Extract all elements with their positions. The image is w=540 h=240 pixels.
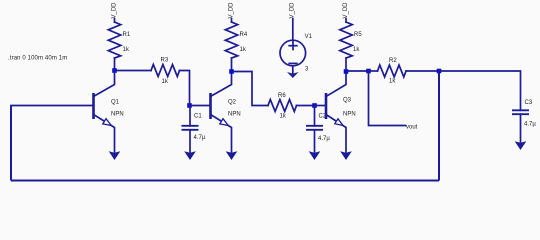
svg-text:C1: C1 [194, 114, 202, 120]
svg-text:4.7µ: 4.7µ [318, 136, 330, 142]
svg-text:1k: 1k [162, 79, 169, 85]
ground under C1 [184, 151, 196, 160]
wire R6 right lead [297, 105, 315, 107]
ground under V1 [287, 72, 299, 78]
wire R2 right lead [406, 70, 439, 72]
svg-text:Q1: Q1 [111, 100, 120, 106]
svg-text:V_DD: V_DD [290, 2, 296, 19]
wire vout tap [369, 71, 406, 126]
ground under Q3 [340, 151, 352, 160]
node R6/C2/Q3-base junction [312, 103, 317, 108]
node R1/Q1/R3 junction [112, 68, 117, 73]
resistor R4 [225, 22, 237, 58]
svg-text:NPN: NPN [228, 112, 241, 118]
node R3/C1/Q2-base junction [187, 103, 192, 108]
svg-text:1k: 1k [123, 47, 130, 53]
wire left rail [10, 106, 12, 181]
svg-text:4.7µ: 4.7µ [194, 135, 206, 141]
voltage source V1 [280, 19, 313, 73]
capacitor C1 [189, 106, 191, 126]
transistor Q1 [94, 71, 124, 153]
wire R1 bottom lead [114, 58, 116, 71]
svg-text:V_DD: V_DD [343, 2, 349, 19]
wire R4 bottom lead [231, 58, 233, 72]
node R4/Q2-collector junction [229, 69, 234, 74]
wire R3 right lead + down jog to Q2 base node [180, 71, 190, 106]
wire staircase from Q2 collector node to R6 [234, 72, 268, 106]
wire R5 node to vout node [348, 70, 369, 72]
resistor R2 [371, 70, 378, 72]
capacitor C2 [314, 106, 316, 126]
svg-text:V_DD: V_DD [229, 2, 235, 19]
svg-text:4.7µ: 4.7µ [524, 122, 536, 128]
transistor Q2 [211, 72, 241, 153]
svg-text:NPN: NPN [343, 112, 356, 118]
svg-text:R3: R3 [161, 58, 169, 64]
svg-text:1k: 1k [389, 79, 396, 85]
ground under C2 [309, 151, 321, 160]
svg-text:R4: R4 [240, 32, 248, 38]
wire R5 top lead [345, 19, 347, 23]
svg-text:Q2: Q2 [228, 100, 237, 106]
node vout junction [366, 69, 371, 74]
svg-text:R6: R6 [278, 93, 286, 99]
ground under Q1 [109, 151, 121, 160]
ground under C3 [515, 141, 527, 150]
svg-text:vout: vout [406, 124, 418, 130]
node R5/Q3-collector junction [344, 69, 349, 74]
wire Q1 base from left rail [11, 105, 94, 107]
svg-text:NPN: NPN [111, 112, 124, 118]
svg-text:.tran 0 100m 40m 1m: .tran 0 100m 40m 1m [8, 56, 67, 62]
transistor Q3 [326, 72, 356, 153]
wire feedback right vertical [438, 71, 440, 181]
resistor R5 [340, 22, 352, 58]
ground under Q2 [226, 151, 238, 160]
svg-text:1k: 1k [240, 47, 247, 53]
wire R4 top lead [231, 19, 233, 23]
svg-text:1k: 1k [353, 47, 360, 53]
svg-text:R5: R5 [354, 32, 362, 38]
svg-text:V_DD: V_DD [112, 2, 118, 19]
resistor R3 [117, 70, 151, 72]
capacitor C3 [512, 109, 529, 111]
resistor R1 [108, 22, 120, 58]
wire Q3 base [316, 105, 327, 107]
wire Q2 base [191, 105, 211, 107]
wire V1 bottom lead [292, 66, 294, 73]
node R2/feedback/C3 junction [437, 69, 442, 74]
resistor R6 [268, 100, 297, 112]
svg-text:R1: R1 [123, 32, 131, 38]
svg-text:V1: V1 [305, 34, 313, 40]
svg-text:1k: 1k [280, 114, 287, 120]
wire R1 top lead [114, 19, 116, 23]
wire R5 bottom lead [345, 58, 347, 72]
svg-text:C3: C3 [525, 100, 533, 106]
wire to C3 [441, 71, 521, 110]
svg-text:R2: R2 [389, 58, 397, 64]
svg-text:Q3: Q3 [343, 98, 352, 104]
wire bottom rail [11, 180, 439, 182]
